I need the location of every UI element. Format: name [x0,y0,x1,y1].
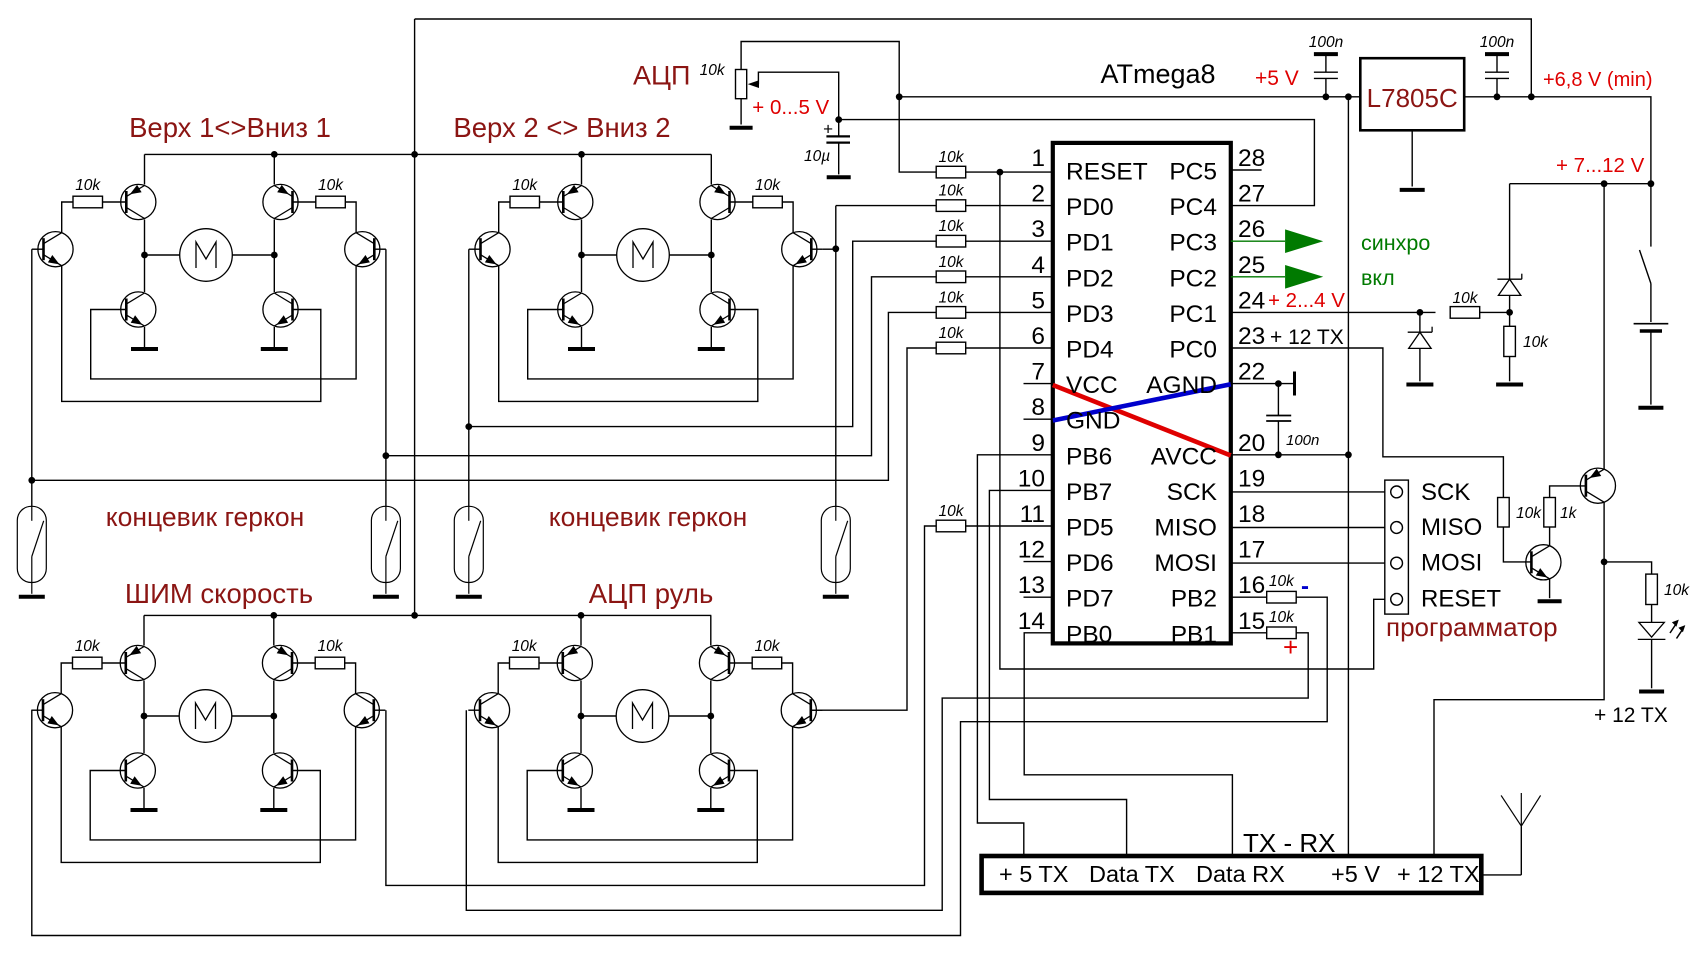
svg-text:PD0: PD0 [1066,194,1114,221]
junction rail center top [411,151,418,158]
junction pin4 net [383,452,390,459]
svg-text:PC1: PC1 [1169,301,1217,328]
svg-text:+ 0...5 V: + 0...5 V [752,96,829,119]
ground bridge3 right [260,808,287,812]
svg-text:+5 V: +5 V [1255,67,1299,90]
wire bridge3 left column middle [143,681,145,754]
svg-text:10k: 10k [1523,334,1549,351]
wire pin23 PC0 to driver base resistor [1231,348,1504,498]
wire bridge1 far-right base down to reed2 [385,249,387,506]
ground zener D2 [1406,383,1433,387]
reed switch 2 [371,506,400,594]
resistor 10k bridge3 right base [315,657,345,669]
resistor 10k pin11 [936,520,966,532]
wire bridge2 far-right collector run [782,202,793,233]
wire bridge1 left base lead [103,201,127,203]
svg-text:10k: 10k [75,638,101,655]
wire +5 rail bridges 3-4 [144,614,711,616]
svg-text:10k: 10k [939,325,965,342]
resistor 10k bridge2 left base [510,196,540,208]
svg-text:MOSI: MOSI [1421,550,1482,577]
wire bridge4 far-right emitter to lower-left base [527,727,792,840]
svg-text:+: + [823,120,833,139]
wire PNP emitter to +7..12 bus [1603,184,1605,470]
svg-text:PD4: PD4 [1066,337,1114,364]
svg-text:PD6: PD6 [1066,550,1114,577]
wire bridge1 far-left collector run [62,202,73,233]
svg-text:PC4: PC4 [1169,194,1217,221]
svg-text:PB2: PB2 [1171,586,1217,613]
ground bridge1 left [131,347,158,351]
svg-text:PB6: PB6 [1066,443,1112,470]
ground reed 1 [19,595,45,599]
junction rail bridge2 left [578,151,585,158]
junction bus at PNP emitter [1601,180,1608,187]
motor M bridge3 [179,690,232,743]
zener diode D1 [1497,274,1521,296]
svg-text:1: 1 [1031,145,1045,172]
wire bridge2 left base lead [540,201,564,203]
X-cross red VCC-AVCC [1053,385,1231,456]
wire bridge2 right column bottom [710,327,712,349]
svg-text:TX - RX: TX - RX [1243,828,1335,858]
resistor 10k driver base [1498,498,1510,528]
arrow green on [1285,265,1323,289]
svg-text:22: 22 [1238,359,1265,386]
svg-text:20: 20 [1238,430,1265,457]
svg-text:27: 27 [1238,181,1265,208]
wire bridge1 far-right collector run [345,202,356,233]
resistor 10k pin15 [1267,627,1297,639]
ground NPN driver [1538,599,1562,603]
ground divider [1496,383,1523,387]
capacitor C 100n at regulator input [1485,54,1509,97]
svg-text:7: 7 [1031,359,1045,386]
svg-text:+ 7...12 V: + 7...12 V [1556,154,1645,177]
wire +7..12V bus [1510,183,1651,185]
ground LED [1639,690,1664,694]
resistor 10k pin2 [936,200,966,212]
junction bridge2 motor right node [708,252,715,259]
junction bus at switch [1648,180,1655,187]
svg-text:10k: 10k [318,638,344,655]
wire pin14 PB0 to DataRX [1024,633,1232,856]
transistor bridge3 upper-right PNP [262,645,297,680]
wire bridge2 left column bottom [581,327,583,349]
wire resistor to pin 2 [966,205,1053,207]
wire bridge2 far-left base stub [469,248,481,250]
wire bridge3 motor right lead [232,715,274,717]
svg-text:MISO: MISO [1421,514,1482,541]
svg-text:10µ: 10µ [804,148,830,165]
svg-text:+ 5 TX: + 5 TX [999,861,1069,887]
svg-text:4: 4 [1031,252,1045,279]
svg-text:концевик геркон: концевик геркон [549,502,748,532]
wire bridge1 motor left lead [145,254,180,256]
wire PNP collector +12TX to TX-RX [1434,502,1604,856]
wire bridge1 far-left base stub [32,248,44,250]
svg-text:10k: 10k [939,149,965,166]
ground reed 2 [373,595,399,599]
wire pin26 sync [1231,240,1285,242]
transistor bridge4 upper-right PNP [699,645,734,680]
junction +5 feed down [1345,93,1352,100]
wire bridge4 right column top [710,615,712,645]
svg-text:Data TX: Data TX [1089,861,1175,887]
svg-text:5: 5 [1031,287,1045,314]
junction +5 at pot feed [896,93,903,100]
junction bridge3 motor left node [141,713,148,720]
wire bridge3 right column middle [273,681,275,754]
wire 1k to PNP base [1550,486,1586,498]
svg-text:10k: 10k [1516,505,1542,522]
svg-text:+: + [1283,632,1298,662]
wire bridge2 right base lead [729,201,752,203]
wire bridge2 motor left lead [582,254,617,256]
wire zener D1 to node [1509,295,1511,312]
wire bridge4 left column top [580,615,582,645]
wire bridge1 motor right lead [232,254,274,256]
transistor bridge1 driver far-right NPN [345,232,380,267]
wire bridge3 left column top [143,615,145,645]
wire pot top to +5 rail [741,42,899,97]
svg-text:10k: 10k [512,177,538,194]
wire bus to zener D1 [1509,184,1511,280]
wire bridge1 right column top [273,154,275,184]
junction pin5 net [28,477,35,484]
wire battery to ground [1650,331,1652,405]
junction bridge1 motor left node [141,252,148,259]
svg-text:AGND: AGND [1146,372,1217,399]
svg-text:9: 9 [1031,430,1045,457]
junction ADC node [835,116,842,123]
ground battery [1638,406,1663,410]
svg-text:8: 8 [1031,394,1045,421]
wire pin11 from resistor [936,525,1053,527]
wire bridge2 far-left emitter to lower-right base [499,266,758,402]
transistor bridge2 driver far-left NPN [475,232,510,267]
wire pin9 PB6 to +5TX [977,455,1052,856]
wire bridge3 right column bottom [273,788,275,810]
wire bridge2 left column middle [581,220,583,293]
svg-text:PD3: PD3 [1066,301,1114,328]
transistor bridge4 driver far-right NPN [781,693,816,728]
wire pin2 vertical to reed4 [835,206,837,507]
wire bridge4 far-left base stub [468,709,480,711]
svg-text:28: 28 [1238,145,1265,172]
wire bridge2 motor right lead [669,254,711,256]
wire pullup to pin 1 [966,171,1053,173]
ground bridge2 right [698,347,725,351]
wire pin 28 stub [1231,169,1262,171]
svg-text:MISO: MISO [1154,515,1217,542]
wire bridge4 motor left lead [581,715,616,717]
wire bridge1 left column top [144,154,146,184]
battery [1634,324,1669,331]
wire bridge1 far-right emitter to lower-left base [91,266,356,379]
svg-text:10k: 10k [1269,609,1295,626]
wire resistor to LED [1651,605,1653,623]
svg-text:PD1: PD1 [1066,230,1114,257]
svg-text:Верх 1<>Вниз 1: Верх 1<>Вниз 1 [129,112,331,143]
wire pin 22 AGND [1231,383,1295,385]
svg-text:10k: 10k [755,638,781,655]
svg-text:PD7: PD7 [1066,586,1114,613]
resistor 10k bridge2 right base [753,196,783,208]
wire NPN emitter to ground [1549,579,1551,598]
svg-text:10k: 10k [1453,290,1479,307]
connector programmer header [1385,480,1409,614]
junction bridge4 motor left node [578,713,585,720]
junction collector LED tap [1601,559,1608,566]
svg-text:10k: 10k [512,638,538,655]
terminal bar AGND [1293,372,1296,396]
wire bridge4 left column middle [580,681,582,754]
junction AGND cap [1275,380,1282,387]
wire pin4 route [386,277,936,456]
wire pin18 MISO [1231,527,1391,529]
transistor bridge3 driver far-left NPN [37,693,72,728]
pin circle MISO [1391,522,1403,534]
ground potentiometer [730,126,753,130]
wire pin11 route to bridge3 far-right base [386,526,936,885]
reed switch 3 [454,506,483,594]
resistor 10k LED [1646,574,1658,604]
wire top left drop to rail [414,19,416,154]
svg-text:вкл: вкл [1361,266,1395,290]
wire bridge1 right column middle [273,220,275,293]
wire bridge3 far-right emitter to lower-left base [90,727,355,840]
transistor bridge4 driver far-left NPN [474,693,509,728]
svg-text:10k: 10k [700,62,726,79]
ground reed 3 [456,595,482,599]
wire pot bottom to ground [740,99,742,125]
wire bridge3 left column bottom [143,788,145,810]
motor M bridge1 [180,229,233,282]
svg-text:RESET: RESET [1066,159,1148,186]
wire pin3 route [469,241,936,426]
transistor bridge2 driver far-right NPN [782,232,817,267]
svg-text:VCC: VCC [1066,372,1118,399]
junction rail bridge4 left [578,612,585,619]
wire bridge2 left column top [581,154,583,184]
svg-text:+5 V: +5 V [1331,861,1380,887]
resistor 1k [1544,498,1556,528]
wire bridge4 motor right lead [669,715,711,717]
svg-text:26: 26 [1238,216,1265,243]
arrow green sync [1285,229,1323,253]
wire top +5 distribution [415,19,1532,97]
wire resistor to pin 5 [966,311,1053,313]
svg-text:PC0: PC0 [1169,337,1217,364]
svg-text:+ 2...4 V: + 2...4 V [1268,289,1345,312]
wire bridge4 right column middle [710,681,712,754]
wire resistor to pin 3 [966,240,1053,242]
module TX-RX body [982,856,1482,893]
resistor 10k bridge4 left base [510,657,540,669]
svg-text:1k: 1k [1560,505,1578,522]
svg-text:25: 25 [1238,252,1265,279]
wire bridge2 far-right base extension [823,248,836,250]
LED D3 [1638,620,1686,640]
resistor 10k pin6 [936,342,966,354]
wire bridge4 far-right base stub [811,709,823,711]
svg-text:10k: 10k [939,254,965,271]
junction AVCC +5 feed [1345,451,1352,458]
svg-text:программатор: программатор [1386,612,1558,642]
resistor 10k bridge3 left base [73,657,103,669]
svg-text:3: 3 [1031,216,1045,243]
svg-text:23: 23 [1238,323,1265,350]
transistor bridge3 upper-left PNP [120,645,155,680]
wire bridge4 far-right collector run [782,663,793,694]
ground reed 4 [823,595,849,599]
junction +5 at 100n [1323,93,1330,100]
wire bridge4 right base lead [729,662,752,664]
wire pin19 SCK [1231,491,1391,493]
wire pin15 stub [1231,632,1267,634]
wire collector to LED resistor [1604,562,1652,574]
svg-text:11: 11 [1020,501,1045,528]
regulator U L7805C [1360,58,1464,130]
antenna [1481,793,1540,875]
wire pin25 on [1231,276,1285,278]
ground bridge4 left [568,808,595,812]
ground capacitor 10u [827,175,851,179]
transistor bridge2 lower-right NPN [700,292,735,327]
svg-text:100n: 100n [1309,34,1343,51]
wire base resistor to NPN base [1503,527,1531,562]
wire pin 20 AVCC to +5 feed [1231,454,1349,456]
wire +5 feed to TX-RX [1347,97,1349,856]
svg-text:PC3: PC3 [1169,230,1217,257]
svg-text:-: - [1301,573,1309,600]
wire +6.8V input rail [1464,97,1651,184]
wire tap to zener D2 [1419,312,1421,332]
svg-text:10k: 10k [1664,582,1690,599]
wire ADC to pin 27 PC4 [839,120,1315,206]
junction bridge1 motor right node [271,252,278,259]
svg-text:15: 15 [1238,608,1265,635]
resistor 10k bridge4 right base [752,657,782,669]
transistor bridge3 lower-right NPN [262,753,297,788]
wire bridge4 far-left collector run [498,663,509,694]
svg-text:24: 24 [1238,287,1265,314]
svg-text:концевик геркон: концевик геркон [106,502,305,532]
svg-text:10k: 10k [1269,573,1295,590]
zener diode D2 [1408,327,1432,349]
wire bridge3 right base lead [292,662,315,664]
resistor 10k divider lower [1504,326,1516,356]
capacitor 10u electrolytic [826,120,850,175]
junction bridge2 motor left node [578,252,585,259]
svg-text:PC2: PC2 [1169,265,1217,292]
junction divider node [1506,309,1513,316]
svg-text:RESET: RESET [1421,586,1501,613]
svg-text:10k: 10k [939,289,965,306]
junction AVCC cap [1275,451,1282,458]
wire pin17 MOSI [1231,562,1391,564]
wire pin6 route to bridge4 far-right base [811,348,937,710]
ground bridge1 right [261,347,288,351]
wire resistor to ground [1509,357,1511,382]
wire pin16 route to bridge3 far-left base [32,597,1327,935]
svg-text:10k: 10k [939,183,965,200]
wire pin10 PB7 to DataTX [989,490,1126,856]
wire bridge4 right column bottom [710,788,712,810]
wire +5 rail bridges 1-2 [145,153,712,155]
svg-text:10: 10 [1018,465,1045,492]
motor M bridge2 [617,229,670,282]
svg-text:12: 12 [1018,537,1045,564]
svg-text:10k: 10k [318,177,344,194]
svg-text:АЦП: АЦП [633,61,690,91]
wire bridge2 far-right base stub [811,248,823,250]
transistor bridge1 upper-right PNP [263,184,298,219]
reed switch 4 [821,506,850,594]
capacitor C 100n at regulator output [1314,54,1338,97]
svg-text:+6,8 V (min): +6,8 V (min) [1543,69,1652,91]
svg-text:ШИМ скорость: ШИМ скорость [125,578,313,609]
wire +5 rail to L7805 output [899,96,1360,98]
svg-text:10k: 10k [755,177,781,194]
wire bridge2 right column top [710,154,712,184]
resistor 10k pin16 [1267,591,1297,603]
wire pin2 horizontal [836,205,936,207]
transistor bridge2 lower-left NPN [558,292,593,327]
pin circle RESET [1391,593,1403,605]
wire NPN collector to 1k [1549,527,1551,546]
wire switch top lead [1650,184,1652,247]
ground L7805 [1400,188,1425,192]
X-cross blue GND-AGND [1053,384,1231,420]
resistor 10k pin3 [936,235,966,247]
switch power [1640,250,1651,284]
wire LED to ground [1651,639,1653,688]
transistor bridge3 driver far-right NPN [344,693,379,728]
IC U1 ATmega8 body [1053,143,1231,644]
wire switch to battery [1650,284,1652,323]
wire bridge1 far-left emitter to lower-right base [62,266,321,402]
svg-text:AVCC: AVCC [1151,443,1217,470]
transistor bridge4 lower-right NPN [699,753,734,788]
transistor bridge1 upper-left PNP [121,184,156,219]
svg-text:MOSI: MOSI [1154,550,1217,577]
resistor 10k RESET pullup [936,166,966,178]
svg-text:SCK: SCK [1167,479,1218,506]
wire bridge1 right column bottom [273,327,275,349]
wire bridge3 far-right collector run [345,663,356,694]
ground bridge4 right [697,808,724,812]
wire pin 12 stub [1024,561,1053,563]
transistor bridge3 lower-left NPN [120,753,155,788]
svg-text:10k: 10k [939,503,965,520]
svg-text:+ 12 TX: + 12 TX [1397,861,1480,887]
ground bridge3 left [131,808,158,812]
svg-text:PB0: PB0 [1066,621,1112,648]
svg-text:10k: 10k [939,218,965,235]
wire pin5 route [32,312,936,480]
svg-text:2: 2 [1031,181,1045,208]
svg-text:+ 12 TX: + 12 TX [1594,704,1668,727]
pin circle MOSI [1391,557,1403,569]
transistor Q NPN driver [1526,545,1561,580]
wire bridge3 far-left collector run [61,663,72,694]
svg-text:18: 18 [1238,501,1265,528]
svg-text:PD5: PD5 [1066,515,1114,542]
ground bridge2 left [568,347,595,351]
svg-text:14: 14 [1018,608,1045,635]
